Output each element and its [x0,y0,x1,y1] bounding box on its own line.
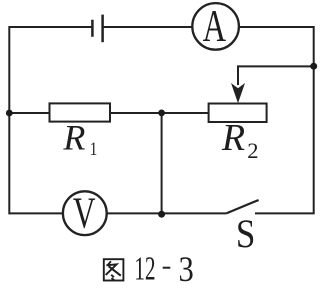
svg-text:3: 3 [179,250,194,290]
svg-text:S: S [236,213,255,257]
svg-text:12: 12 [134,251,155,288]
svg-text:V: V [73,189,96,238]
svg-text:1: 1 [90,139,98,160]
svg-text:2: 2 [247,138,258,163]
svg-text:A: A [203,1,227,52]
svg-text:R: R [221,117,245,159]
svg-text:R: R [62,117,85,157]
